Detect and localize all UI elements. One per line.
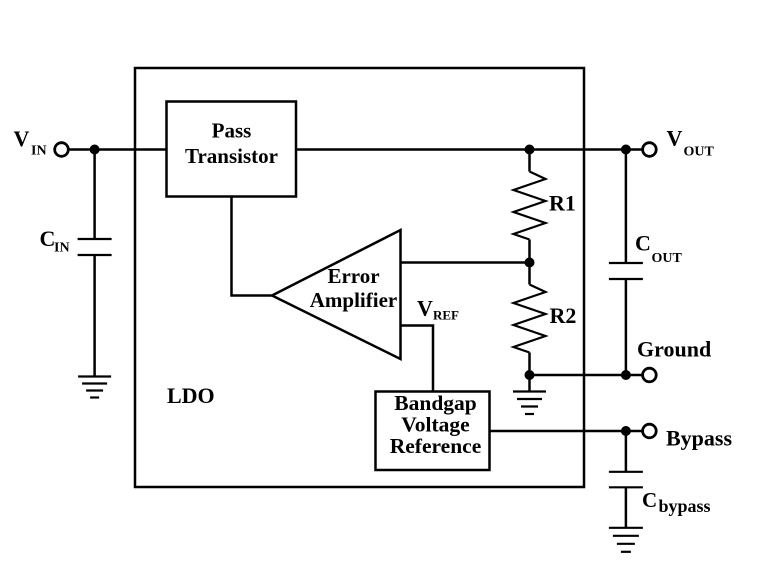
wire: CIN to ground bbox=[93, 255, 96, 377]
svg-text:REF: REF bbox=[433, 308, 459, 323]
wire: R2 to ground rail bbox=[528, 353, 531, 376]
svg-text:OUT: OUT bbox=[652, 251, 683, 266]
wire: feedback node to error amplifier input bbox=[401, 261, 530, 264]
terminal VIN bbox=[55, 143, 69, 157]
wire: input node down to CIN bbox=[93, 150, 96, 240]
wire: bandgap output to Bypass terminal bbox=[490, 430, 643, 433]
svg-text:Error: Error bbox=[327, 264, 379, 288]
capacitor Cbypass bbox=[609, 471, 643, 473]
svg-text:R1: R1 bbox=[549, 191, 576, 216]
wire: COUT to ground rail bbox=[625, 279, 628, 375]
svg-text:Transistor: Transistor bbox=[185, 144, 278, 168]
terminal Ground bbox=[643, 368, 657, 382]
wire: R2 node to ground symbol bbox=[528, 375, 531, 392]
node: R1 top junction bbox=[525, 145, 535, 155]
wire: top rail to R1 bbox=[528, 150, 531, 172]
node: feedback junction R1/R2 bbox=[525, 258, 535, 268]
svg-text:Ground: Ground bbox=[637, 337, 711, 362]
ground symbol (Cbypass) bbox=[609, 528, 643, 552]
LDO box U1 bbox=[135, 68, 584, 487]
svg-text:C: C bbox=[40, 226, 56, 251]
resistor R1 bbox=[514, 172, 546, 240]
op-amp U2 error amplifier bbox=[272, 230, 401, 359]
svg-text:V: V bbox=[667, 126, 683, 151]
svg-text:bypass: bypass bbox=[659, 496, 711, 516]
svg-text:Reference: Reference bbox=[390, 434, 482, 458]
node: bypass junction bbox=[621, 426, 631, 436]
wire: pass transistor gate down and to error amplifier output bbox=[232, 197, 273, 296]
svg-text:R2: R2 bbox=[550, 303, 577, 328]
wire: VIN terminal to pass transistor input bbox=[69, 148, 167, 151]
node: VOUT junction bbox=[621, 145, 631, 155]
capacitor COUT bbox=[609, 262, 643, 264]
bandgap voltage reference block U3 bbox=[376, 392, 490, 471]
wire: ground rail to Ground terminal bbox=[530, 374, 643, 377]
wire: pass transistor output to VOUT rail bbox=[296, 148, 643, 151]
svg-text:Pass: Pass bbox=[212, 119, 252, 143]
ground symbol (R2) bbox=[513, 392, 546, 415]
wire: feedback node to R2 bbox=[528, 263, 531, 285]
svg-text:IN: IN bbox=[54, 241, 70, 256]
node: input junction bbox=[90, 145, 100, 155]
wire: VOUT node down to COUT bbox=[625, 150, 628, 264]
wire: Cbypass to ground symbol bbox=[625, 487, 628, 528]
terminal Bypass bbox=[643, 424, 657, 438]
svg-text:IN: IN bbox=[31, 144, 47, 159]
svg-text:V: V bbox=[417, 296, 433, 321]
wire: bypass node down to Cbypass bbox=[625, 431, 628, 472]
terminal VOUT bbox=[643, 143, 657, 157]
svg-text:C: C bbox=[642, 488, 657, 512]
pass transistor block Q1 bbox=[167, 102, 297, 197]
svg-text:C: C bbox=[635, 231, 651, 256]
resistor R2 bbox=[514, 285, 546, 353]
svg-text:Bypass: Bypass bbox=[666, 426, 732, 451]
capacitor CIN bbox=[78, 238, 112, 240]
node: ground junction bbox=[621, 370, 631, 380]
svg-text:Voltage: Voltage bbox=[401, 412, 469, 436]
svg-text:Bandgap: Bandgap bbox=[394, 391, 477, 415]
svg-text:Amplifier: Amplifier bbox=[310, 288, 397, 312]
wire: R1 to feedback node bbox=[528, 240, 531, 263]
svg-text:V: V bbox=[14, 126, 30, 151]
ground symbol (CIN) bbox=[78, 377, 111, 398]
node: R2 ground junction bbox=[525, 370, 535, 380]
wire: VREF input to bandgap reference bbox=[401, 326, 434, 392]
svg-text:LDO: LDO bbox=[167, 383, 215, 408]
svg-text:OUT: OUT bbox=[684, 145, 715, 160]
